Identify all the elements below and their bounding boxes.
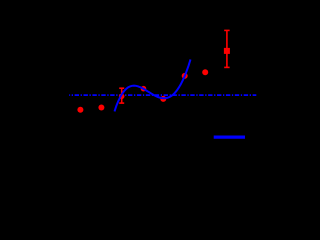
data point P6 bbox=[182, 73, 188, 79]
data point P5 bbox=[160, 96, 166, 102]
data point P8 square bbox=[224, 48, 230, 54]
legend line sample bbox=[214, 136, 245, 139]
error bar E1 bbox=[119, 88, 124, 103]
error bar E2 bbox=[224, 30, 229, 67]
data point P3 bbox=[119, 94, 125, 100]
data point P4 bbox=[141, 86, 147, 92]
fitted curve bbox=[115, 59, 191, 111]
baseline dash-dot horizontal line bbox=[69, 94, 256, 96]
data point P2 bbox=[98, 105, 104, 111]
data point P7 bbox=[202, 69, 208, 75]
data point P1 bbox=[77, 107, 83, 113]
